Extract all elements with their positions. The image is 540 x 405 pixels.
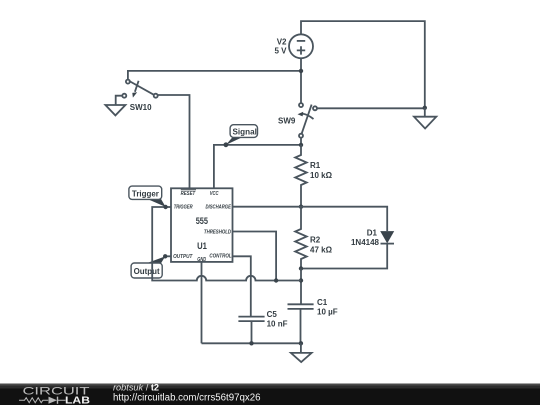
svg-text:10 kΩ: 10 kΩ	[310, 171, 333, 180]
wire: SW10 ground throw lead	[116, 96, 123, 105]
svg-text:RESET: RESET	[181, 191, 196, 197]
op-amp U1 555 box	[171, 188, 233, 262]
junction: V2 bottom / SW10 wire	[299, 69, 303, 73]
svg-text:R1: R1	[310, 161, 321, 170]
svg-text:robtsuk / t2: robtsuk / t2	[113, 382, 159, 392]
wire: VCC to R1 top node (Signal net)	[214, 145, 301, 188]
wire: CONTROL to C5	[232, 256, 250, 316]
junction: Signal net / R1 top	[299, 143, 303, 147]
resistor R2	[295, 207, 307, 269]
wire: SW10 pole to U1 RESET	[158, 95, 190, 188]
switch SW9	[298, 103, 318, 138]
U1 pin stub OUTPUT	[165, 255, 171, 257]
svg-text:5 V: 5 V	[274, 47, 287, 56]
svg-text:V2: V2	[277, 37, 287, 46]
wire: U1 DISCHARGE to D1 anode	[232, 207, 387, 231]
svg-text:SW9: SW9	[278, 117, 296, 126]
svg-text:Output: Output	[134, 266, 160, 276]
wire: SW9 pole down to R1 top node	[300, 138, 302, 145]
wire: SW10 top throw to V2 bottom node	[128, 71, 301, 80]
svg-text:D1: D1	[367, 228, 378, 237]
junction: C1 / ground rail	[299, 341, 303, 345]
svg-text:C1: C1	[317, 298, 328, 307]
svg-text:LAB: LAB	[65, 395, 90, 405]
junction: R2 bottom / D1 cathode	[299, 266, 303, 270]
node Trigger flag	[129, 186, 168, 209]
junction: C5 / ground rail	[249, 341, 253, 345]
junction: R1/R2/discharge node	[299, 205, 303, 209]
U1 pin stub TRIGGER	[166, 206, 171, 208]
wire: R2 bottom node down to C1	[300, 269, 302, 305]
ground: SW10	[105, 105, 125, 115]
svg-text:SW10: SW10	[130, 103, 152, 112]
wire: ground rail	[202, 342, 302, 344]
svg-text:10 nF: 10 nF	[267, 320, 288, 329]
svg-text:C5: C5	[267, 310, 278, 319]
svg-text:U1: U1	[197, 241, 207, 251]
wire: D1 cathode to R2 bottom node	[301, 244, 387, 269]
svg-text:TRIGGER: TRIGGER	[174, 204, 193, 210]
capacitor C5	[238, 317, 264, 344]
wire: U1 GND down to ground rail	[201, 262, 203, 343]
ground: bottom	[291, 343, 312, 362]
wire: THRESHOLD to trigger net	[232, 232, 276, 281]
svg-text:DISCHARGE: DISCHARGE	[206, 204, 232, 210]
svg-text:Signal: Signal	[233, 126, 257, 136]
switch SW10	[122, 80, 157, 98]
wire: trigger net (TRIGGER to threshold/R2 node)	[152, 207, 301, 281]
svg-text:10 µF: 10 µF	[317, 308, 338, 317]
junction: threshold / trigger net	[274, 278, 278, 282]
svg-text:R2: R2	[310, 236, 321, 245]
junction: right rail / SW9	[423, 106, 427, 110]
svg-text:THRESHOLD: THRESHOLD	[204, 230, 232, 236]
resistor R1	[295, 145, 307, 207]
svg-text:555: 555	[196, 216, 208, 226]
capacitor C1	[288, 304, 314, 343]
CircuitLab logo	[19, 386, 90, 405]
diode D1	[380, 231, 394, 244]
footer bar	[0, 384, 540, 405]
ground: right rail	[414, 108, 436, 129]
svg-text:1N4148: 1N4148	[351, 238, 380, 247]
wire: V2 top to top-right rail	[301, 21, 425, 108]
node Output flag	[131, 254, 167, 278]
svg-text:http://circuitlab.com/crrs56t9: http://circuitlab.com/crrs56t97qx26	[113, 393, 261, 404]
svg-text:47 kΩ: 47 kΩ	[310, 245, 333, 254]
svg-text:Trigger: Trigger	[132, 188, 160, 198]
svg-text:VCC: VCC	[210, 191, 219, 197]
junction: trigger net end	[299, 278, 303, 282]
voltage source V2	[289, 34, 313, 58]
svg-text:CONTROL: CONTROL	[209, 254, 232, 260]
node Signal flag	[224, 125, 258, 148]
wire: V2 bottom to SW9 top	[300, 58, 302, 103]
svg-text:OUTPUT: OUTPUT	[173, 254, 193, 260]
wire: SW9 right throw to right rail	[317, 107, 425, 109]
